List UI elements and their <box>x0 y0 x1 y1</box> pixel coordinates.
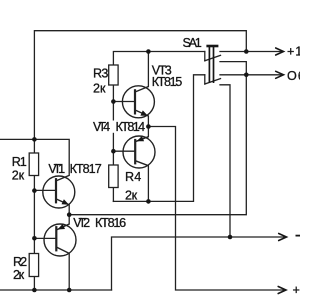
svg-text:R1: R1 <box>12 155 28 169</box>
svg-text:R4: R4 <box>125 170 142 184</box>
svg-text:VT4: VT4 <box>93 120 111 134</box>
svg-text:R3: R3 <box>93 67 109 81</box>
svg-text:2к: 2к <box>13 268 25 282</box>
svg-text:+1: +1 <box>287 44 300 58</box>
svg-text:VT2: VT2 <box>73 216 91 230</box>
svg-text:КТ815: КТ815 <box>152 75 184 89</box>
svg-text:SA1: SA1 <box>183 36 203 50</box>
svg-text:+1: +1 <box>293 283 301 297</box>
svg-text:Об: Об <box>287 69 300 83</box>
svg-text:2к: 2к <box>125 188 138 202</box>
svg-text:2к: 2к <box>12 168 25 182</box>
svg-text:КТ814: КТ814 <box>116 120 147 134</box>
svg-text:КТ817: КТ817 <box>70 162 103 176</box>
svg-text:КТ816: КТ816 <box>95 216 127 230</box>
svg-text:R2: R2 <box>13 255 28 269</box>
svg-text:VT1: VT1 <box>48 162 66 176</box>
svg-text:2к: 2к <box>93 82 106 96</box>
